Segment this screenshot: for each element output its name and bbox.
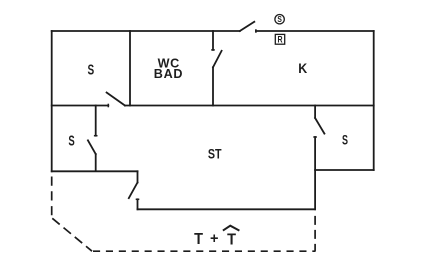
door jamb tick right S: [313, 136, 317, 138]
door leaf right S room: [315, 118, 324, 134]
svg-text:S: S: [68, 133, 74, 150]
door leaf top entrance: [240, 22, 255, 31]
wall left exterior: [51, 31, 53, 171]
wall top-right segment: [256, 30, 374, 32]
wall WC/K divider lower: [212, 67, 214, 105]
door jamb tick WC/K: [211, 49, 215, 51]
door leaf top-left S room: [107, 93, 125, 106]
door leaf ST bottom-left: [129, 183, 138, 199]
svg-text:S: S: [342, 134, 348, 148]
svg-text:K: K: [298, 60, 307, 76]
wall bottom of right S room: [315, 169, 374, 171]
symbol circled S: [275, 14, 284, 24]
svg-text:S: S: [87, 60, 94, 78]
wall middle horizontal right part: [125, 105, 374, 107]
wall bottom of left S room: [52, 170, 138, 172]
wall WC/K divider upper: [212, 31, 214, 50]
terrace dashed right: [314, 216, 316, 251]
terrace dashed diagonal: [52, 218, 92, 251]
roof caret over T: [223, 226, 240, 231]
wall S/ST divider upper: [95, 106, 97, 136]
wall middle horizontal left part: [52, 105, 109, 107]
wall ST/S-right divider upper: [314, 106, 316, 118]
wall S/ST divider lower: [95, 154, 97, 170]
wall ST/S-right divider lower: [314, 137, 316, 209]
svg-text:ST: ST: [208, 146, 222, 162]
svg-text:+: +: [210, 231, 218, 247]
wall right exterior: [373, 31, 375, 170]
svg-text:BAD: BAD: [154, 67, 183, 81]
door jamb tick left S: [94, 135, 98, 137]
door leaf left S room: [88, 140, 96, 154]
door jamb tick top entrance: [255, 29, 257, 33]
svg-text:T: T: [227, 231, 237, 249]
door jamb tick ST: [136, 198, 140, 200]
wall top-left segment: [52, 30, 240, 32]
symbol boxed R: [275, 34, 284, 44]
terrace dashed bottom: [93, 250, 316, 252]
svg-text:T: T: [194, 230, 204, 248]
wall S/WC divider: [129, 31, 131, 106]
wall ST bottom: [138, 208, 316, 210]
svg-text:S: S: [277, 14, 281, 24]
svg-text:R: R: [277, 35, 282, 45]
terrace dashed left: [51, 177, 53, 218]
wall ST step down: [137, 171, 139, 182]
wall ST left lower: [137, 199, 139, 209]
door leaf WC/K: [213, 51, 222, 68]
door jamb tick top-left S: [107, 104, 109, 108]
